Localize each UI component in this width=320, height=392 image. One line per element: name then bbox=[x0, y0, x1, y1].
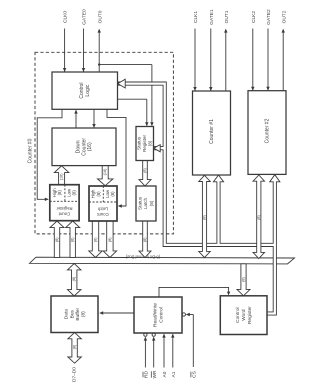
svg-text:(8): (8) bbox=[149, 200, 154, 206]
svg-text:Control: Control bbox=[158, 307, 164, 322]
svg-text:Status: Status bbox=[138, 196, 143, 210]
svg-text:OUT2: OUT2 bbox=[281, 10, 287, 23]
svg-text:CLK2: CLK2 bbox=[251, 11, 257, 23]
svg-text:Control: Control bbox=[235, 307, 241, 322]
svg-text:(8): (8) bbox=[242, 276, 246, 281]
svg-text:(16): (16) bbox=[103, 168, 107, 175]
svg-text:CLK0: CLK0 bbox=[63, 11, 69, 23]
svg-text:Counter #1: Counter #1 bbox=[209, 119, 215, 144]
svg-text:(8): (8) bbox=[108, 237, 112, 242]
svg-text:(8): (8) bbox=[73, 344, 77, 349]
svg-text:(8): (8) bbox=[147, 140, 152, 146]
svg-text:Latch: Latch bbox=[97, 207, 108, 212]
svg-text:CS: CS bbox=[191, 371, 197, 378]
svg-text:(8): (8) bbox=[80, 311, 86, 317]
svg-text:GATE1: GATE1 bbox=[209, 9, 215, 25]
svg-text:(8): (8) bbox=[72, 190, 77, 196]
svg-text:Status: Status bbox=[137, 136, 142, 150]
svg-text:(8): (8) bbox=[203, 214, 207, 219]
svg-text:WR: WR bbox=[152, 370, 158, 379]
svg-text:Counter #2: Counter #2 bbox=[265, 118, 271, 143]
svg-text:Buffer: Buffer bbox=[75, 307, 81, 320]
svg-text:(8): (8) bbox=[55, 237, 59, 242]
svg-text:Logic: Logic bbox=[85, 84, 91, 96]
svg-text:GATE2: GATE2 bbox=[266, 9, 272, 25]
svg-text:Register: Register bbox=[142, 134, 147, 152]
svg-text:(8): (8) bbox=[94, 237, 98, 242]
svg-text:OUT0: OUT0 bbox=[97, 10, 103, 23]
svg-text:Bus: Bus bbox=[69, 309, 75, 318]
svg-text:Read/Write: Read/Write bbox=[152, 303, 158, 327]
svg-text:A0: A0 bbox=[162, 371, 168, 377]
svg-text:Data: Data bbox=[64, 309, 70, 319]
svg-text:(8): (8) bbox=[110, 191, 115, 197]
svg-text:(8): (8) bbox=[71, 237, 75, 242]
svg-text:(8): (8) bbox=[143, 167, 147, 172]
svg-text:OUT1: OUT1 bbox=[224, 10, 230, 23]
svg-text:(8): (8) bbox=[57, 190, 62, 196]
svg-text:(8): (8) bbox=[96, 191, 101, 197]
svg-text:GATE0: GATE0 bbox=[82, 9, 88, 25]
svg-text:CLK1: CLK1 bbox=[193, 11, 199, 23]
svg-text:(8): (8) bbox=[143, 237, 147, 242]
svg-text:(8): (8) bbox=[257, 214, 261, 219]
svg-text:(16): (16) bbox=[87, 142, 93, 151]
svg-text:(8): (8) bbox=[72, 276, 76, 281]
svg-text:Latch: Latch bbox=[143, 197, 148, 209]
svg-text:Count: Count bbox=[96, 212, 108, 217]
svg-text:D7–D0: D7–D0 bbox=[72, 367, 78, 382]
svg-text:Register: Register bbox=[56, 206, 73, 211]
svg-text:A1: A1 bbox=[171, 371, 177, 377]
svg-text:Register: Register bbox=[247, 306, 253, 324]
svg-text:(16): (16) bbox=[60, 173, 64, 180]
svg-text:RD: RD bbox=[143, 371, 149, 378]
svg-text:Counter #0: Counter #0 bbox=[27, 138, 33, 163]
svg-text:Word: Word bbox=[241, 309, 247, 321]
svg-text:Count: Count bbox=[58, 212, 70, 217]
